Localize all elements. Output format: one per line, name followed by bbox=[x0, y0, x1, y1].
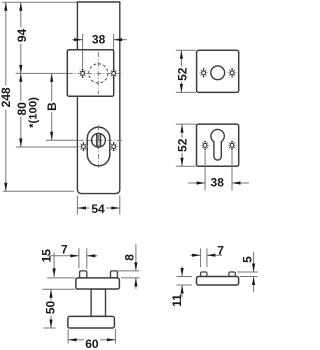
svg-text:52: 52 bbox=[176, 138, 190, 152]
svg-text:B: B bbox=[45, 102, 59, 111]
dim 38 bottom arrows bbox=[188, 182, 205, 184]
knob side view stem bbox=[91, 289, 105, 316]
wire: bottom extension line bbox=[3, 190, 74, 192]
svg-text:54: 54 bbox=[91, 202, 105, 216]
dim 80 line bbox=[20, 73, 22, 101]
long plate outline bbox=[77, 2, 119, 194]
dim 52 (rose2) ticks bbox=[176, 123, 196, 125]
svg-text:50: 50 bbox=[43, 301, 57, 315]
dim 11 line bbox=[181, 267, 183, 277]
wire: tick at handle centre height bbox=[16, 72, 77, 74]
wire: tick at cylinder centreline height bbox=[46, 139, 77, 141]
svg-text:38: 38 bbox=[92, 32, 106, 46]
dim 248 line bbox=[5, 2, 7, 85]
svg-text:11: 11 bbox=[170, 294, 184, 307]
wire: 38 ext continuation inside rose bbox=[82, 51, 84, 69]
dim 50 line bbox=[50, 289, 52, 300]
screw cylinder left bbox=[79, 142, 88, 151]
wire: base top tick left bbox=[44, 327, 56, 329]
svg-text:8: 8 bbox=[123, 254, 137, 261]
screw handle right bbox=[109, 69, 118, 78]
svg-text:7: 7 bbox=[61, 242, 68, 256]
dim 38 bottom extension lines bbox=[204, 151, 206, 191]
handle hole dashed circle bbox=[89, 64, 108, 83]
dim 11 ticks bbox=[177, 276, 193, 278]
svg-text:15: 15 bbox=[39, 249, 53, 263]
centreline horizontal through cylinder bbox=[79, 139, 123, 141]
knob side view base bbox=[68, 316, 115, 328]
screw rose1 right bbox=[228, 68, 237, 77]
svg-text:5: 5 bbox=[241, 256, 255, 263]
cyl rose side view strip bbox=[197, 277, 239, 286]
knob side view peg left bbox=[80, 271, 87, 278]
dim 38 top extension lines bbox=[82, 34, 84, 69]
handle spindle hole bbox=[211, 66, 225, 80]
dim 7 (knob) arrows bbox=[47, 255, 79, 257]
screw handle left bbox=[78, 69, 87, 78]
dim 52 (rose2) line bbox=[181, 124, 183, 138]
dim 38 top arrows bbox=[72, 39, 83, 41]
svg-text:52: 52 bbox=[176, 67, 190, 81]
dim 8 ticks right bbox=[118, 270, 140, 272]
svg-text:38: 38 bbox=[211, 175, 225, 189]
dim 15 line bbox=[53, 253, 55, 277]
cylinder key slot bbox=[96, 134, 98, 147]
dim 60 line and arrows bbox=[68, 339, 84, 341]
square cylinder rose front view bbox=[197, 124, 239, 166]
knob side view peg right bbox=[111, 271, 118, 278]
screw rose2 left bbox=[201, 141, 210, 150]
dim 60 extension lines bbox=[67, 329, 69, 344]
dim 5 line bbox=[253, 252, 255, 272]
svg-text:*(100): *(100) bbox=[27, 97, 39, 128]
cyl rose side view peg left bbox=[201, 272, 207, 277]
wire: tick at cylinder screw height bbox=[16, 146, 77, 148]
dim B line bbox=[51, 73, 53, 101]
wire: strip top tick left bbox=[47, 277, 76, 279]
dim 7 (rose) extension lines bbox=[200, 248, 202, 267]
centreline vertical through handle bbox=[97, 52, 99, 94]
square rose on plate bbox=[67, 50, 113, 96]
cyl rose side view peg right bbox=[229, 272, 235, 277]
dim 5 ticks bbox=[237, 271, 258, 273]
wire: top extension line bbox=[2, 1, 77, 3]
svg-text:60: 60 bbox=[85, 337, 99, 350]
svg-text:248: 248 bbox=[0, 87, 13, 107]
svg-text:7: 7 bbox=[217, 244, 224, 258]
centreline vertical through oval bbox=[98, 125, 100, 167]
dim 94 line bbox=[20, 2, 22, 27]
oval cylinder rose bbox=[87, 127, 110, 166]
dim 8 line bbox=[135, 244, 137, 271]
screw rose2 right bbox=[228, 141, 237, 150]
screw rose1 left bbox=[199, 68, 208, 77]
screw cylinder right bbox=[109, 142, 118, 151]
centreline horizontal through handle bbox=[68, 72, 123, 74]
dim 52 (rose1) ticks bbox=[176, 49, 196, 51]
europrofile keyhole bbox=[211, 129, 224, 160]
dim 7 (rose) arrows bbox=[190, 254, 200, 256]
wire: strip bottom tick left bbox=[42, 288, 75, 290]
square handle rose front view bbox=[197, 50, 239, 92]
dim 52 (rose1) line bbox=[180, 50, 182, 66]
knob side view strip bbox=[76, 278, 120, 289]
profile cylinder circle bbox=[92, 133, 106, 147]
svg-text:94: 94 bbox=[15, 29, 29, 43]
dim 54 line and arrows bbox=[77, 207, 89, 209]
dim 7 (knob) extension lines bbox=[78, 248, 80, 268]
dim 54 extension lines bbox=[76, 196, 78, 215]
